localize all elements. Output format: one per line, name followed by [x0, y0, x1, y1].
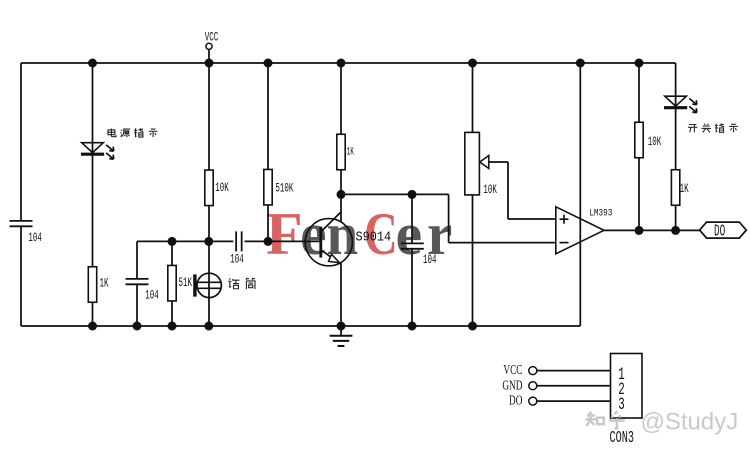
svg-text:10K: 10K [483, 183, 497, 198]
svg-text:10K: 10K [648, 135, 662, 150]
svg-text:51K: 51K [179, 276, 193, 291]
svg-text:VCC: VCC [205, 31, 218, 46]
svg-text:3: 3 [618, 396, 624, 415]
svg-text:F: F [266, 201, 303, 267]
svg-text:104: 104 [423, 253, 436, 268]
svg-text:DO: DO [714, 223, 725, 242]
svg-text:@StudyJ: @StudyJ [641, 408, 739, 435]
svg-text:104: 104 [230, 253, 243, 268]
svg-text:10K: 10K [215, 181, 229, 196]
svg-text:GND: GND [502, 376, 522, 393]
svg-text:CON3: CON3 [610, 429, 634, 448]
svg-text:1K: 1K [100, 277, 110, 292]
svg-text:VCC: VCC [503, 361, 522, 378]
svg-text:510K: 510K [275, 182, 294, 197]
svg-text:DO: DO [509, 392, 523, 409]
svg-text:104: 104 [145, 289, 158, 304]
svg-text:LM393: LM393 [589, 206, 612, 219]
svg-text:104: 104 [28, 231, 41, 246]
svg-text:1K: 1K [680, 182, 690, 197]
svg-text:e: e [300, 201, 327, 267]
svg-text:1K: 1K [347, 146, 355, 158]
svg-text:S9014: S9014 [356, 229, 392, 245]
svg-text:e: e [396, 201, 423, 267]
